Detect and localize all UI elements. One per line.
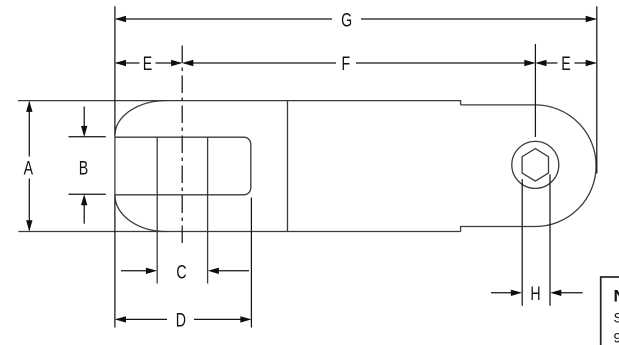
svg-text:C: C (176, 262, 186, 284)
arrow H right (550, 290, 561, 296)
arrow G right (586, 16, 597, 22)
svg-text:H: H (530, 283, 540, 305)
arrow C right (208, 268, 219, 274)
extension line hex right (H) (549, 175, 551, 306)
clevis slot (115, 137, 251, 195)
clevis left face (114, 135, 116, 195)
body separator line (287, 101, 289, 232)
label H (530, 283, 540, 305)
dimension H right leader (561, 292, 583, 294)
arrow G left (115, 16, 126, 22)
arrow D left (115, 316, 126, 322)
part body top edge (18, 101, 461, 105)
svg-text:G: G (341, 9, 352, 31)
dimension C right leader (219, 270, 250, 272)
dimension D line (117, 318, 251, 320)
centerline clevis hole (181, 46, 183, 244)
hex socket circle (512, 141, 559, 188)
arrow D right (240, 316, 251, 322)
arrow F right (524, 60, 535, 66)
label F (341, 53, 350, 75)
svg-text:B: B (79, 158, 88, 180)
arrow E right-left (535, 60, 546, 66)
arrow A top (26, 101, 32, 112)
svg-text:F: F (341, 53, 350, 75)
head top edge (461, 104, 536, 106)
label B (79, 158, 88, 180)
label E right (561, 53, 570, 75)
label C (176, 262, 186, 284)
extension line head center (534, 44, 536, 137)
svg-text:NOTE:: NOTE: (614, 287, 619, 306)
svg-text:E: E (561, 53, 570, 75)
dimension B bottom leader (69, 194, 106, 223)
head bottom edge (461, 227, 536, 232)
arrow E left-right (171, 60, 182, 66)
arrow A bottom (26, 220, 32, 231)
extension line left end (114, 6, 116, 327)
dimension E left line (116, 62, 181, 64)
pin hole left edge line (156, 137, 158, 283)
clevis bottom-left arc (115, 195, 167, 231)
dimension B top leader (69, 107, 106, 137)
label G (341, 9, 352, 31)
dimension H left leader (491, 292, 512, 294)
arrow H left (511, 290, 522, 296)
extension line right end (596, 6, 598, 173)
hex socket hexagon (522, 149, 548, 182)
note box (601, 277, 619, 345)
extension line hex left (H) (521, 179, 523, 306)
svg-text:9/16: 9/16 (614, 330, 619, 345)
dimension E right line (537, 62, 596, 64)
dimension A line (28, 102, 30, 230)
dimension C left leader (121, 270, 147, 272)
svg-text:D: D (176, 309, 186, 331)
arrow B bottom (81, 194, 87, 205)
head right semicircle (535, 105, 596, 227)
svg-text:E: E (143, 53, 152, 75)
extension line slot end (D) (250, 198, 252, 328)
arrow C left (146, 268, 157, 274)
arrow B top (81, 126, 87, 137)
arrow E left-left (115, 60, 126, 66)
svg-text:Screw: Screw (614, 310, 619, 326)
pin hole right edge line (207, 137, 209, 283)
part body bottom edge (18, 231, 460, 233)
arrow F left (182, 60, 193, 66)
label D (176, 309, 186, 331)
label E left (143, 53, 152, 75)
arrow E right-right (586, 60, 597, 66)
clevis top-left arc (115, 101, 166, 136)
svg-text:A: A (24, 158, 34, 180)
dimension F line (184, 62, 535, 64)
label A (24, 158, 34, 180)
dimension G line (116, 18, 596, 20)
